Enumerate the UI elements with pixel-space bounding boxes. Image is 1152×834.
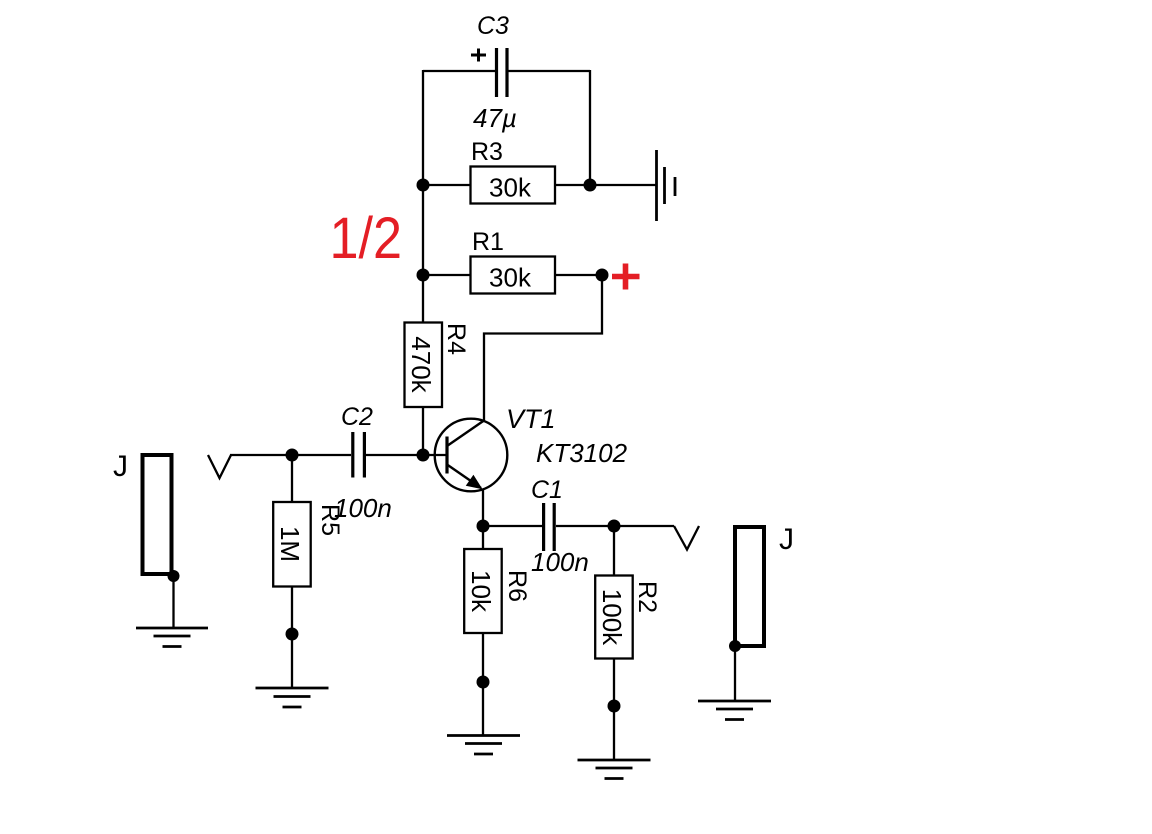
wire left bus upper <box>422 70 424 323</box>
junction dot R3 left <box>417 179 430 192</box>
label J (right) <box>779 523 794 556</box>
wire input row <box>230 454 446 456</box>
wire jack right to ground <box>734 646 736 701</box>
wire output row <box>483 525 674 527</box>
wire C3 right branch down <box>589 70 591 185</box>
resistor R6 box <box>464 549 502 633</box>
label R2 (rotated) <box>633 581 661 613</box>
label R4 (rotated) <box>442 323 470 355</box>
svg-text:R2: R2 <box>633 581 661 613</box>
connector J jack (left) <box>143 455 172 574</box>
svg-text:1/2: 1/2 <box>330 205 403 270</box>
label VT1 <box>506 404 556 434</box>
wire R3 row <box>423 184 656 186</box>
svg-text:10k: 10k <box>466 570 496 613</box>
value 30k (R1) <box>489 263 532 293</box>
input terminal V (left) <box>208 455 231 478</box>
svg-text:R1: R1 <box>472 228 504 256</box>
C3 polarity plus <box>471 49 486 62</box>
svg-text:100k: 100k <box>597 589 627 646</box>
resistor R1 box <box>471 257 556 294</box>
junction dot emitter <box>477 520 490 533</box>
svg-text:30k: 30k <box>489 173 532 203</box>
label J (left) <box>113 450 128 483</box>
capacitor C1 <box>544 503 555 551</box>
svg-text:R3: R3 <box>471 138 503 166</box>
ground (right jack) <box>698 701 771 720</box>
connector J jack (right) <box>735 527 764 646</box>
value 100n (C2) <box>334 493 392 523</box>
capacitor C2 <box>353 432 365 478</box>
ground (below R5) <box>256 688 329 707</box>
label C3 <box>477 12 509 40</box>
value 470k (rotated) <box>406 336 436 393</box>
wire C3 right lead <box>509 70 591 72</box>
transistor VT1 <box>435 419 508 492</box>
junction dot output/R2 <box>608 520 621 533</box>
wire R5 bottom <box>291 587 293 689</box>
ground (left jack) <box>136 628 208 647</box>
junction dot jack left pin <box>168 570 180 582</box>
wire R2 bottom <box>613 659 615 761</box>
value 30k (R3) <box>489 173 532 203</box>
wire C3 left lead <box>423 70 495 72</box>
value 10k (rotated) <box>466 570 496 613</box>
capacitor C3 <box>497 48 508 97</box>
ground (right of R3, rotated) <box>657 150 676 221</box>
label R6 (rotated) <box>503 570 531 602</box>
junction dot R1 left <box>417 269 430 282</box>
svg-text:VT1: VT1 <box>506 404 556 434</box>
value 47u <box>473 103 517 133</box>
value 100n (C1) <box>531 547 589 577</box>
junction dot below R2 <box>608 700 621 713</box>
output terminal V (right) <box>674 526 699 550</box>
wire R1 row <box>423 274 602 276</box>
resistor R3 box <box>471 167 556 204</box>
svg-text:100n: 100n <box>531 547 589 577</box>
supply plus mark (red) <box>612 264 640 290</box>
junction dot R1 right <box>596 269 609 282</box>
wire R6 top <box>482 526 484 549</box>
junction dot below R6 <box>477 676 490 689</box>
junction dot input/R5 <box>286 449 299 462</box>
resistor R4 box <box>405 323 443 408</box>
label 1/2 (red) <box>330 205 403 270</box>
svg-text:C1: C1 <box>531 476 563 504</box>
wire emitter down <box>482 489 484 526</box>
wire R5 top <box>291 455 293 502</box>
svg-text:R5: R5 <box>316 504 344 536</box>
svg-text:470k: 470k <box>406 336 436 393</box>
value 100k (rotated) <box>597 589 627 646</box>
ground (below R2) <box>578 760 651 779</box>
svg-text:J: J <box>113 450 128 483</box>
label C1 <box>531 476 563 504</box>
svg-text:KT3102: KT3102 <box>536 438 628 468</box>
svg-text:47µ: 47µ <box>473 103 517 133</box>
resistor R5 box <box>273 502 311 587</box>
value 1M (rotated) <box>275 526 305 562</box>
svg-text:R6: R6 <box>503 570 531 602</box>
svg-text:C2: C2 <box>341 403 373 431</box>
svg-text:J: J <box>779 523 794 556</box>
junction dot base node <box>417 449 430 462</box>
svg-text:1M: 1M <box>275 526 305 562</box>
ground (below R6) <box>447 736 520 755</box>
label R1 <box>472 228 504 256</box>
svg-text:R4: R4 <box>442 323 470 355</box>
junction dot jack right pin <box>729 640 741 652</box>
resistor R2 box <box>595 576 633 659</box>
junction dot R3 right <box>584 179 597 192</box>
label C2 <box>341 403 373 431</box>
label R5 (rotated) <box>316 504 344 536</box>
wire R1 node down and over to collector <box>484 275 602 421</box>
label KT3102 <box>536 438 628 468</box>
junction dot below R5 <box>286 628 299 641</box>
label R3 <box>471 138 503 166</box>
wire R2 top <box>613 526 615 576</box>
svg-text:C3: C3 <box>477 12 509 40</box>
wire R6 bottom <box>482 633 484 736</box>
svg-text:30k: 30k <box>489 263 532 293</box>
wire left bus lower (R4 bottom to base node) <box>422 406 424 456</box>
wire jack left to ground <box>172 576 174 628</box>
